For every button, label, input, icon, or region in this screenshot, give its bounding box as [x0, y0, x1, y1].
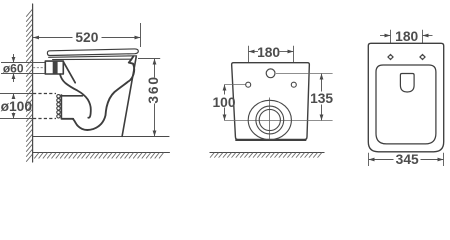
svg-text:360: 360 — [146, 75, 161, 103]
svg-text:135: 135 — [310, 91, 333, 106]
svg-text:180: 180 — [257, 45, 280, 60]
svg-text:100: 100 — [212, 95, 235, 110]
svg-text:ø60: ø60 — [3, 61, 24, 75]
svg-text:ø100: ø100 — [1, 99, 33, 114]
svg-text:345: 345 — [396, 152, 419, 167]
svg-text:180: 180 — [395, 29, 418, 44]
svg-text:520: 520 — [75, 30, 98, 45]
